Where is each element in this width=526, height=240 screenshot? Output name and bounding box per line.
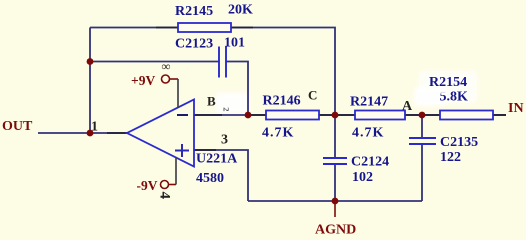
- svg-text:4580: 4580: [196, 171, 224, 186]
- svg-text:R2154: R2154: [429, 75, 467, 90]
- resistor R2146: [262, 94, 319, 141]
- svg-text:R2145: R2145: [175, 4, 213, 19]
- svg-text:C2124: C2124: [351, 155, 389, 170]
- svg-text:A: A: [402, 99, 413, 114]
- wire: node C down to C2124 top plate: [334, 115, 336, 158]
- svg-text:OUT: OUT: [2, 119, 33, 134]
- pin leads (black) of R2145: [156, 27, 253, 29]
- svg-text:101: 101: [224, 36, 245, 51]
- capacitor C2123: [175, 36, 245, 78]
- wire: left feedback column from top wire down through node to output line: [89, 28, 91, 134]
- junction node: feedback tap upper left: [87, 58, 94, 65]
- svg-text:∞: ∞: [162, 60, 171, 74]
- svg-text:4: 4: [157, 192, 173, 200]
- wire: inverting input (net B) from op-amp to R2146: [194, 114, 266, 116]
- wire: R2154 to IN port: [493, 114, 506, 116]
- junction node C: [332, 112, 339, 119]
- wire: C2124 bottom plate to ground rail: [334, 164, 336, 201]
- svg-text:IN: IN: [508, 101, 524, 116]
- svg-text:4.7K: 4.7K: [352, 126, 384, 141]
- wire: node C between R2146 and R2147: [319, 114, 355, 116]
- wire: feedback top run from left column over R2145 down to node C: [90, 28, 335, 116]
- wire: non-inverting input down to ground rail: [194, 150, 248, 201]
- op-amp U221A (4580): [127, 100, 238, 187]
- resistor R2145: [175, 3, 253, 33]
- svg-text:AGND: AGND: [315, 223, 356, 238]
- resistor R2154: [429, 75, 493, 120]
- svg-text:4.7K: 4.7K: [262, 125, 294, 140]
- capacitor C2124: [323, 155, 389, 186]
- svg-text:3: 3: [221, 133, 228, 148]
- svg-text:C2123: C2123: [175, 37, 213, 52]
- svg-text:102: 102: [352, 170, 373, 185]
- svg-text:C: C: [308, 88, 317, 103]
- resistor R2147: [350, 95, 405, 141]
- capacitor C2135: [409, 135, 478, 165]
- svg-text:C2135: C2135: [440, 135, 478, 150]
- power port +9V: [131, 73, 178, 108]
- ground AGND: [315, 201, 356, 238]
- svg-text:B: B: [207, 94, 216, 109]
- svg-text:+9V: +9V: [131, 73, 155, 88]
- junction node A: [419, 112, 426, 119]
- wire: node to C2123 left plate: [90, 61, 219, 63]
- svg-text:122: 122: [440, 150, 461, 165]
- svg-text:1: 1: [91, 120, 98, 135]
- pin leads (black) of R2146: [248, 114, 337, 116]
- wire: bottom ground rail: [248, 200, 422, 202]
- svg-text:-9V: -9V: [137, 178, 158, 193]
- wire: C2135 bottom plate to ground rail: [421, 144, 423, 201]
- svg-text:2: 2: [222, 107, 232, 111]
- junction node: output tap lower left: [87, 130, 94, 137]
- svg-text:20K: 20K: [228, 3, 253, 18]
- wire: node A between R2147 and R2154: [405, 114, 440, 116]
- pin leads (black) of R2154: [422, 114, 506, 116]
- power port -9V: [137, 158, 177, 193]
- pin leads (black) of R2147: [335, 114, 424, 116]
- svg-text:R2146: R2146: [263, 94, 301, 109]
- junction node at AGND: [332, 198, 339, 205]
- wire: C2123 right plate down to inverting input node B: [226, 62, 248, 116]
- wire: node A down to C2135 top plate: [421, 115, 423, 138]
- svg-text:R2147: R2147: [350, 95, 388, 110]
- wire: op-amp output to OUT port: [38, 132, 127, 134]
- pin leads (black) of op-amp U221A: [107, 115, 222, 150]
- svg-text:U221A: U221A: [196, 152, 238, 167]
- junction node B at inverting input: [245, 112, 252, 119]
